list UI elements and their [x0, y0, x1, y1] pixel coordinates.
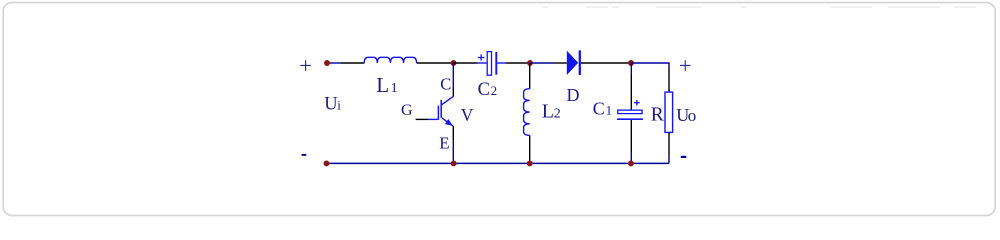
- svg-text:R: R: [651, 104, 664, 125]
- svg-text:V: V: [461, 105, 474, 125]
- wire top rail from L1 to node A: [417, 62, 454, 64]
- wire collector branch down from node A: [452, 63, 454, 97]
- label L1: [376, 73, 397, 97]
- wire emitter branch down to bottom rail: [452, 126, 454, 163]
- wire bottom rail: [327, 162, 670, 164]
- terminal + (output positive): [679, 53, 692, 78]
- label G (gate pin): [401, 102, 413, 119]
- node emitter / bottom rail junction: [451, 160, 457, 166]
- terminal + (input positive): [299, 53, 312, 78]
- wire L2 branch upper lead: [529, 63, 531, 89]
- label C (collector pin): [440, 75, 451, 94]
- svg-text:L: L: [542, 101, 554, 123]
- svg-text:i: i: [337, 98, 341, 113]
- svg-text:U: U: [324, 95, 337, 115]
- diode D: [567, 50, 580, 75]
- label C1: [593, 98, 612, 118]
- label C2: [478, 80, 498, 100]
- label E (emitter pin): [439, 133, 449, 152]
- resistor R: [665, 92, 673, 132]
- svg-text:C: C: [593, 98, 605, 118]
- node B (C2 / L2 / D junction): [527, 60, 533, 66]
- svg-text:+: +: [679, 53, 692, 78]
- wire C1 branch upper lead: [630, 63, 632, 110]
- transistor V (IGBT): [416, 97, 454, 126]
- node A (L1 / C2 / collector junction): [451, 60, 457, 66]
- node C (D / C1 / R junction): [628, 60, 634, 66]
- label Uo: [676, 105, 696, 125]
- svg-text:2: 2: [491, 83, 498, 98]
- svg-text:G: G: [401, 102, 413, 119]
- capacitor C2 (polarized, + left plate): [478, 52, 497, 76]
- node C1 / bottom rail junction: [628, 160, 634, 166]
- svg-text:L: L: [376, 73, 389, 97]
- label V (transistor designator): [461, 105, 474, 125]
- wire top rail from node B to diode: [530, 62, 567, 64]
- svg-text:+: +: [299, 53, 312, 78]
- label Ui: [324, 95, 341, 115]
- svg-text:o: o: [688, 106, 697, 125]
- svg-text:D: D: [567, 85, 580, 105]
- wire R branch lower lead to bottom rail: [668, 132, 670, 163]
- svg-text:C: C: [440, 75, 451, 94]
- wire C1 branch lower lead to bottom rail: [630, 120, 632, 163]
- inductor L2: [524, 89, 530, 136]
- node L2 / bottom rail junction: [527, 160, 533, 166]
- wire top rail from diode to node C: [581, 62, 631, 64]
- capacitor C1 (polarized electrolytic, + top plate): [617, 100, 643, 119]
- inductor L1: [364, 57, 416, 63]
- terminal - (output negative): [681, 156, 687, 158]
- wire L2 branch lower lead to bottom rail: [529, 135, 531, 163]
- svg-text:C: C: [478, 80, 490, 100]
- terminal - (input negative): [302, 154, 307, 156]
- label L2: [542, 101, 561, 123]
- svg-text:E: E: [439, 133, 449, 152]
- svg-text:2: 2: [554, 107, 561, 122]
- wire top rail from C2 to node B: [497, 62, 530, 64]
- node input positive terminal dot: [324, 60, 330, 66]
- svg-text:1: 1: [391, 81, 398, 96]
- wire top rail from input node to L1: [327, 62, 364, 64]
- svg-text:1: 1: [606, 102, 613, 117]
- label R: [651, 104, 664, 125]
- wire top rail from node C to R branch corner: [631, 63, 669, 92]
- wire top rail from node A to C2: [454, 62, 487, 64]
- label D: [567, 85, 580, 105]
- node input negative terminal dot: [324, 160, 330, 166]
